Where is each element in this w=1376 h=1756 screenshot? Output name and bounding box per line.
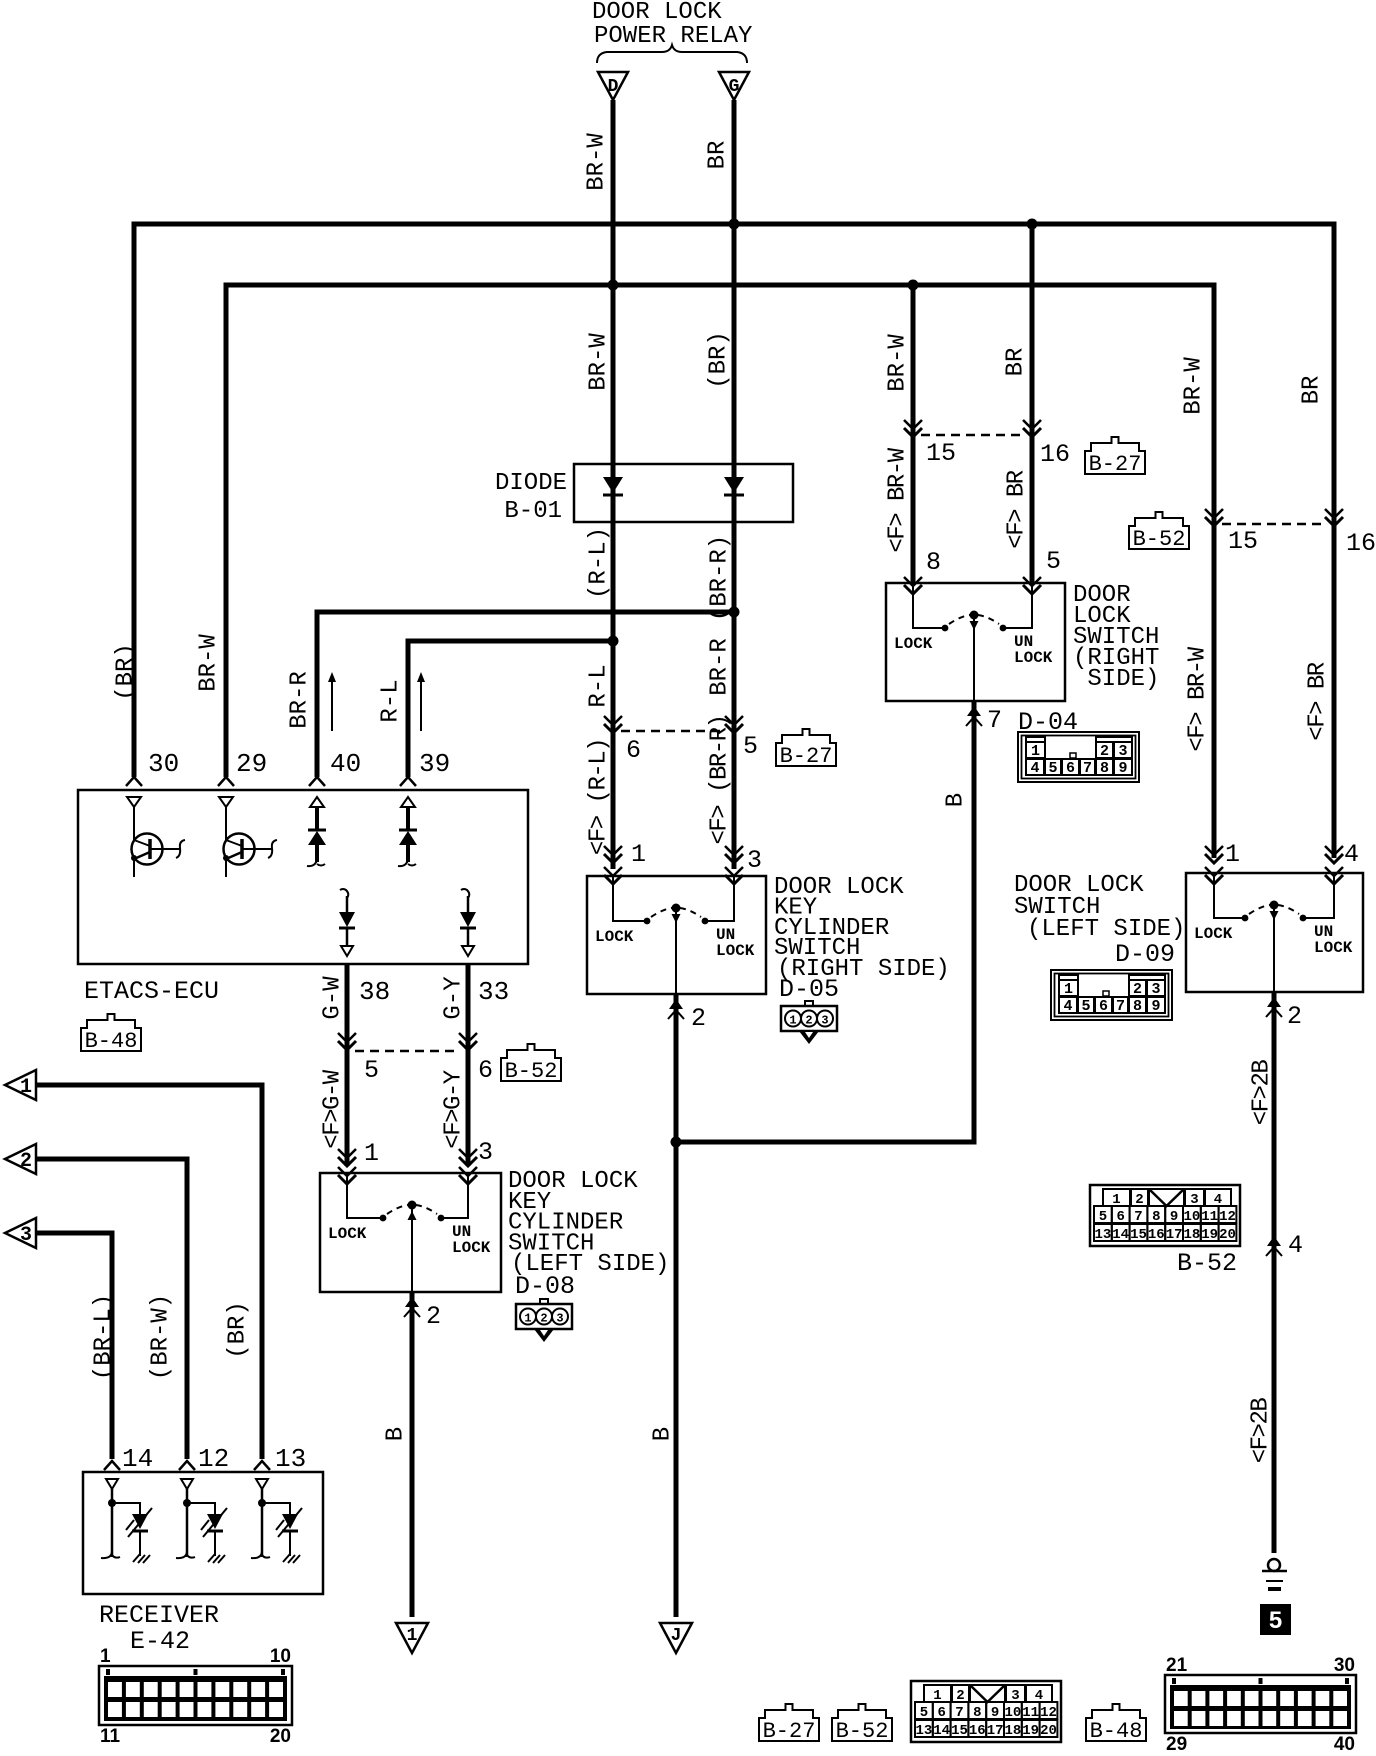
svg-text:LOCK: LOCK [1194,925,1233,943]
svg-text:3: 3 [1151,981,1160,998]
svg-text:LOCK: LOCK [595,928,634,946]
svg-text:7: 7 [955,1705,963,1721]
svg-text:9: 9 [1151,998,1160,1015]
svg-text:6: 6 [937,1705,945,1721]
svg-text:17: 17 [1166,1227,1183,1243]
svg-text:BR-R: BR-R [286,671,313,729]
svg-text:BR-R: BR-R [706,638,733,696]
svg-text:20: 20 [1219,1227,1236,1243]
svg-text:12: 12 [1040,1705,1057,1721]
svg-text:3: 3 [747,846,762,875]
svg-text:D-05: D-05 [779,975,839,1004]
svg-text:2: 2 [1100,743,1109,760]
svg-text:D: D [608,77,619,97]
svg-text:8: 8 [926,548,941,577]
svg-text:<F>G-Y: <F>G-Y [440,1070,467,1149]
svg-text:<F> BR-W: <F> BR-W [884,447,911,552]
svg-text:B-48: B-48 [85,1029,138,1054]
svg-text:11: 11 [1022,1705,1039,1721]
svg-text:B-52: B-52 [836,1719,889,1744]
svg-text:4: 4 [1288,1231,1303,1260]
svg-text:16: 16 [1346,529,1376,558]
svg-text:12: 12 [198,1444,229,1474]
svg-text:5: 5 [1269,1607,1282,1634]
svg-text:G: G [729,77,740,97]
svg-text:R-L: R-L [377,679,404,722]
svg-text:38: 38 [359,977,390,1007]
svg-text:7: 7 [1134,1209,1142,1225]
svg-text:<F>2B: <F>2B [1248,1060,1275,1126]
svg-text:12: 12 [1219,1209,1236,1225]
svg-text:B-01: B-01 [504,498,562,525]
svg-text:(BR-W): (BR-W) [147,1294,174,1380]
svg-text:(BR): (BR) [224,1301,251,1359]
svg-text:<F>2B: <F>2B [1247,1398,1274,1464]
svg-text:8: 8 [973,1705,981,1721]
svg-text:5: 5 [743,732,758,761]
svg-text:R-L: R-L [585,664,612,707]
svg-text:RECEIVER: RECEIVER [99,1601,219,1630]
svg-text:<F> BR: <F> BR [1003,470,1030,549]
svg-text:5: 5 [1048,760,1057,777]
svg-text:16: 16 [1148,1227,1165,1243]
svg-text:30: 30 [1334,1655,1355,1676]
svg-text:BR-W: BR-W [583,133,610,191]
svg-text:B-52: B-52 [505,1059,558,1084]
svg-text:7: 7 [987,706,1002,735]
svg-text:14: 14 [933,1723,950,1739]
svg-text:13: 13 [275,1444,306,1474]
svg-text:3: 3 [1118,743,1127,760]
svg-text:2: 2 [540,1312,547,1326]
svg-text:7: 7 [1083,760,1092,777]
svg-text:39: 39 [419,749,450,779]
svg-text:15: 15 [926,439,956,468]
svg-text:8: 8 [1133,998,1142,1015]
svg-text:<F> (R-L): <F> (R-L) [585,739,612,855]
svg-text:5: 5 [364,1056,379,1085]
svg-text:(BR-L): (BR-L) [90,1294,117,1380]
svg-text:9: 9 [1170,1209,1178,1225]
svg-text:D-08: D-08 [515,1272,575,1301]
svg-text:19: 19 [1201,1227,1218,1243]
svg-text:(BR-R): (BR-R) [706,535,733,621]
svg-text:5: 5 [1046,547,1061,576]
svg-text:B: B [942,793,969,807]
svg-text:<F>G-W: <F>G-W [319,1069,346,1149]
svg-text:LOCK: LOCK [894,635,933,653]
svg-text:1: 1 [631,840,646,869]
svg-text:16: 16 [969,1723,986,1739]
svg-text:4: 4 [1344,840,1359,869]
svg-text:BR-W: BR-W [195,634,222,692]
svg-text:BR: BR [704,141,731,170]
svg-text:(R-L): (R-L) [585,527,612,599]
svg-text:5: 5 [1081,998,1090,1015]
svg-text:2: 2 [805,1014,812,1028]
svg-text:13: 13 [915,1723,932,1739]
svg-text:11: 11 [1201,1209,1218,1225]
svg-text:(LEFT SIDE): (LEFT SIDE) [1027,916,1185,943]
svg-text:6: 6 [1116,1209,1124,1225]
svg-text:LOCK: LOCK [716,942,755,960]
svg-text:E-42: E-42 [130,1627,190,1656]
svg-text:1: 1 [524,1312,531,1326]
svg-text:19: 19 [1022,1723,1039,1739]
svg-text:8: 8 [1152,1209,1160,1225]
svg-text:21: 21 [1166,1655,1188,1676]
svg-text:14: 14 [122,1444,153,1474]
svg-text:1: 1 [100,1646,111,1667]
svg-text:29: 29 [1166,1734,1187,1755]
svg-text:2: 2 [1133,981,1142,998]
svg-text:1: 1 [1225,840,1240,869]
svg-text:ETACS-ECU: ETACS-ECU [84,977,219,1006]
svg-text:15: 15 [1130,1227,1147,1243]
svg-text:1: 1 [364,1139,379,1168]
svg-text:30: 30 [148,749,179,779]
svg-text:BR-W: BR-W [1180,357,1207,415]
svg-text:LOCK: LOCK [328,1225,367,1243]
svg-text:17: 17 [987,1723,1004,1739]
svg-text:(BR): (BR) [705,331,732,389]
svg-text:B: B [649,1427,676,1441]
svg-text:9: 9 [1118,760,1127,777]
svg-text:B-27: B-27 [763,1719,816,1744]
svg-text:18: 18 [1183,1227,1200,1243]
svg-text:BR: BR [1002,348,1029,377]
svg-text:1: 1 [407,1626,418,1646]
svg-text:BR-W: BR-W [585,333,612,391]
svg-text:20: 20 [270,1726,291,1747]
svg-text:SIDE): SIDE) [1073,666,1159,693]
svg-text:4: 4 [1063,998,1072,1015]
svg-text:2: 2 [20,1150,32,1173]
svg-text:15: 15 [951,1723,968,1739]
svg-text:<F> (BR-R): <F> (BR-R) [706,715,733,844]
svg-text:8: 8 [1100,760,1109,777]
svg-text:20: 20 [1040,1723,1057,1739]
svg-text:10: 10 [1004,1705,1021,1721]
svg-text:10: 10 [270,1646,291,1667]
svg-text:6: 6 [1066,760,1075,777]
svg-text:1: 1 [20,1076,32,1099]
svg-text:B-27: B-27 [1089,452,1142,477]
svg-text:LOCK: LOCK [452,1239,491,1257]
svg-text:6: 6 [626,736,641,765]
svg-text:DIODE: DIODE [495,470,567,497]
svg-text:16: 16 [1040,440,1070,469]
svg-text:6: 6 [478,1056,493,1085]
svg-text:3: 3 [20,1224,32,1247]
svg-text:1: 1 [789,1014,796,1028]
svg-text:1: 1 [1031,743,1040,760]
svg-text:7: 7 [1116,998,1125,1015]
svg-text:G-Y: G-Y [440,976,467,1019]
svg-text:B-48: B-48 [1090,1719,1143,1744]
svg-text:J: J [671,1626,682,1646]
svg-text:3: 3 [821,1014,828,1028]
svg-text:LOCK: LOCK [1014,649,1053,667]
svg-text:9: 9 [991,1705,999,1721]
svg-text:B-52: B-52 [1177,1249,1237,1278]
svg-text:29: 29 [236,749,267,779]
svg-text:33: 33 [478,977,509,1007]
svg-text:5: 5 [920,1705,928,1721]
svg-text:BR: BR [1298,376,1325,405]
svg-text:13: 13 [1094,1227,1111,1243]
svg-text:2: 2 [1287,1002,1302,1031]
svg-text:2: 2 [426,1302,441,1331]
svg-text:4: 4 [1030,760,1039,777]
svg-text:LOCK: LOCK [1314,939,1353,957]
svg-text:<F> BR: <F> BR [1304,662,1331,741]
svg-text:6: 6 [1099,998,1108,1015]
svg-text:11: 11 [100,1726,121,1747]
svg-text:BR-W: BR-W [884,334,911,392]
svg-text:3: 3 [556,1312,563,1326]
svg-text:10: 10 [1183,1209,1200,1225]
svg-text:14: 14 [1112,1227,1129,1243]
svg-text:B: B [382,1427,409,1441]
svg-text:18: 18 [1004,1723,1021,1739]
svg-text:B-27: B-27 [780,744,833,769]
svg-text:1: 1 [1064,981,1073,998]
svg-text:G-W: G-W [319,976,346,1020]
svg-text:<F> BR-W: <F> BR-W [1184,646,1211,751]
svg-text:(BR): (BR) [112,643,139,701]
svg-text:3: 3 [478,1138,493,1167]
svg-text:B-52: B-52 [1133,527,1186,552]
svg-text:15: 15 [1228,527,1258,556]
svg-text:2: 2 [691,1004,706,1033]
svg-text:5: 5 [1099,1209,1107,1225]
svg-text:D-09: D-09 [1115,940,1175,969]
svg-text:40: 40 [1334,1734,1355,1755]
svg-text:40: 40 [330,749,361,779]
